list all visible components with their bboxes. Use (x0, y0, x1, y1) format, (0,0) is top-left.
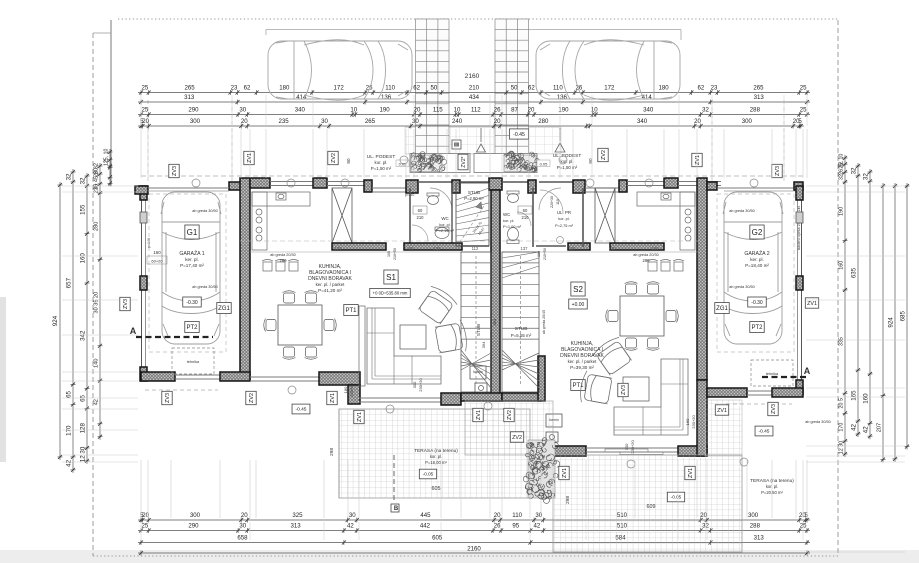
svg-text:110: 110 (385, 84, 395, 91)
S1 south window (250, 376, 324, 378)
svg-text:300: 300 (742, 118, 753, 125)
svg-text:G1: G1 (187, 228, 198, 237)
svg-text:PT2: PT2 (751, 325, 763, 331)
svg-text:WC: WC (503, 212, 510, 217)
svg-text:ZV3: ZV3 (172, 166, 178, 176)
svg-text:136: 136 (381, 94, 392, 101)
svg-text:42: 42 (850, 423, 857, 430)
svg-text:394: 394 (492, 318, 497, 325)
svg-text:ker. pl. / parket: ker. pl. / parket (568, 359, 598, 364)
entry porch right (UL PODEST) (474, 154, 537, 173)
main stair S2 (502, 252, 539, 392)
svg-text:130: 130 (335, 246, 343, 251)
svg-text:ab greda 20/30: ab greda 20/30 (270, 253, 296, 257)
pier g1-3 (140, 276, 147, 290)
svg-text:128: 128 (79, 422, 86, 433)
svg-text:A: A (804, 366, 811, 376)
svg-text:62: 62 (244, 84, 251, 91)
witness lines right (806, 185, 905, 187)
wall (141, 372, 175, 381)
svg-text:190: 190 (838, 207, 844, 216)
svg-text:kor. pl.: kor. pl. (503, 218, 514, 223)
garage1 door (148, 187, 229, 189)
svg-text:P=1,50 m²: P=1,50 m² (371, 166, 392, 171)
pier g2-3 (796, 276, 803, 290)
svg-text:ZV1: ZV1 (688, 468, 694, 478)
label PT2 (185, 322, 199, 333)
svg-text:12 30: 12 30 (79, 446, 86, 462)
WC/stair wall (451, 183, 453, 247)
svg-text:42: 42 (65, 459, 72, 466)
dining S1 (278, 305, 322, 345)
svg-text:25: 25 (141, 522, 148, 529)
svg-text:-0.45: -0.45 (296, 407, 307, 413)
sofa S1 (367, 308, 441, 384)
svg-text:10: 10 (454, 106, 461, 113)
svg-text:P=18,40 m²: P=18,40 m² (745, 263, 769, 268)
svg-text:240: 240 (452, 118, 463, 125)
svg-text:298: 298 (329, 448, 335, 456)
label S1 (384, 270, 398, 284)
beam dashed line (141, 175, 489, 177)
svg-text:313: 313 (291, 522, 302, 529)
svg-text:26 32: 26 32 (838, 161, 844, 175)
kitchen S1 (252, 192, 310, 250)
wall (707, 388, 747, 397)
tv bench S1 (359, 306, 365, 386)
property boundary dashed (118, 18, 838, 20)
svg-text:S2: S2 (573, 285, 583, 294)
svg-text:+0.00: +0.00 (572, 302, 585, 308)
greenery patch (522, 437, 560, 504)
stair core bottom wall right (502, 393, 541, 401)
svg-text:32: 32 (850, 167, 857, 174)
svg-text:265: 265 (753, 84, 764, 91)
pier g2-1 (796, 186, 803, 200)
stair core bottom wall left (461, 393, 502, 401)
svg-text:STUB: STUB (476, 324, 481, 336)
svg-text:kor. pl.: kor. pl. (430, 454, 442, 459)
svg-text:P=39,30 m²: P=39,30 m² (570, 365, 594, 370)
label OD (370, 288, 411, 297)
garage2 door post right (794, 182, 803, 190)
svg-text:442: 442 (420, 522, 431, 529)
bar stools S1 (263, 262, 272, 271)
svg-text:20: 20 (494, 512, 501, 519)
svg-text:PT1: PT1 (572, 383, 584, 389)
outer wall garage1 left (glass brick) (141, 186, 143, 381)
svg-text:130: 130 (609, 246, 617, 251)
svg-text:ab greda 30/50: ab greda 30/50 (192, 285, 218, 289)
S2 terrace door (586, 447, 678, 449)
svg-text:313: 313 (184, 94, 195, 101)
wall S2-garage2 (697, 178, 707, 380)
entry stair left STUB 2.90 (456, 183, 489, 246)
svg-text:230+20: 230+20 (691, 415, 696, 429)
svg-text:110: 110 (553, 84, 563, 91)
svg-text:210+50: 210+50 (393, 248, 397, 260)
svg-text:23: 23 (711, 84, 718, 91)
car (161, 192, 221, 344)
garage2 door (717, 187, 794, 189)
svg-text:62: 62 (698, 84, 705, 91)
witness lines bottom (140, 460, 142, 518)
terrace S2 (553, 455, 742, 552)
svg-text:290: 290 (188, 522, 199, 529)
svg-text:190: 190 (379, 106, 390, 113)
fireplace S2 (546, 414, 562, 427)
bottom dimension chains (138, 519, 810, 521)
svg-text:20 5: 20 5 (838, 398, 844, 409)
party wall (491, 190, 500, 401)
svg-text:P=5,55 m²: P=5,55 m² (511, 333, 532, 338)
svg-text:172: 172 (604, 84, 615, 91)
svg-text:kor. pl.: kor. pl. (558, 216, 569, 221)
pier g2-4 (796, 380, 803, 394)
S2 south wall east (678, 446, 707, 456)
svg-text:30: 30 (239, 106, 246, 113)
svg-text:ker. pl.: ker. pl. (750, 257, 764, 262)
S2 east wall lower (697, 380, 707, 456)
plot line (110, 20, 112, 186)
window ZV1 (270, 181, 313, 183)
svg-text:112: 112 (472, 246, 479, 251)
svg-text:87: 87 (511, 106, 518, 113)
svg-text:340: 340 (295, 106, 306, 113)
svg-text:2160: 2160 (465, 73, 480, 80)
section B (393, 455, 395, 503)
witness lines left (62, 185, 138, 187)
svg-text:-0.05: -0.05 (423, 472, 434, 477)
S1 terrace door (359, 397, 441, 399)
WC corner pier (406, 180, 418, 193)
svg-text:136: 136 (557, 94, 568, 101)
svg-text:265: 265 (184, 84, 195, 91)
svg-text:P=2,75 m²: P=2,75 m² (555, 223, 574, 228)
svg-text:ZV1: ZV1 (562, 468, 568, 478)
svg-text:434: 434 (469, 94, 480, 101)
wall seg S1 (332, 243, 386, 250)
side path grid (705, 400, 742, 456)
svg-text:23: 23 (231, 84, 238, 91)
svg-text:STUB: STUB (515, 326, 528, 332)
svg-text:25: 25 (141, 106, 148, 113)
svg-text:210: 210 (522, 215, 530, 220)
svg-text:394: 394 (481, 341, 486, 348)
svg-text:ZV1: ZV1 (717, 408, 727, 414)
svg-text:20: 20 (694, 118, 701, 125)
svg-text:ZV2: ZV2 (331, 153, 337, 163)
wardrobe S1 (332, 188, 352, 243)
svg-text:924: 924 (52, 315, 59, 326)
svg-text:65: 65 (65, 390, 72, 397)
svg-text:-0.30: -0.30 (186, 300, 198, 306)
svg-text:ZV3: ZV3 (123, 299, 129, 309)
svg-text:20: 20 (528, 106, 535, 113)
svg-text:26: 26 (494, 522, 501, 529)
svg-text:25: 25 (800, 106, 807, 113)
svg-text:230+20: 230+20 (418, 378, 423, 392)
S1 top wall pier (313, 178, 327, 188)
svg-text:-0.05: -0.05 (671, 495, 682, 500)
svg-text:235: 235 (279, 118, 290, 125)
svg-text:UL. PR: UL. PR (557, 210, 571, 215)
coffee table S2 (623, 377, 649, 401)
svg-text:-0.45: -0.45 (513, 132, 525, 138)
svg-text:298: 298 (565, 496, 571, 504)
S2 sliding door rails (605, 449, 648, 452)
svg-text:160: 160 (685, 418, 690, 425)
pier g1-1 (140, 186, 147, 200)
svg-text:25: 25 (800, 522, 807, 529)
UL.PR room right (540, 190, 563, 213)
wall seg S2 (610, 243, 664, 250)
svg-text:340: 340 (643, 106, 654, 113)
level G1 (183, 297, 202, 307)
svg-text:313: 313 (754, 94, 765, 101)
svg-text:280: 280 (643, 258, 651, 263)
walkway strip left (416, 19, 529, 154)
svg-text:115: 115 (433, 106, 443, 113)
svg-text:20: 20 (241, 512, 248, 519)
driveway dashes (147, 100, 149, 184)
svg-text:B: B (394, 506, 399, 512)
svg-text:ab greda 30/50: ab greda 30/50 (192, 209, 218, 213)
svg-text:ab greda 30/50: ab greda 30/50 (729, 285, 755, 289)
window ZV2 (327, 181, 364, 183)
svg-text:160: 160 (153, 250, 161, 255)
car (723, 192, 783, 344)
svg-text:ab greda 30/50: ab greda 30/50 (729, 209, 755, 213)
svg-text:635: 635 (850, 267, 857, 278)
svg-text:ZV3: ZV3 (165, 393, 171, 403)
svg-text:PT1: PT1 (345, 308, 357, 314)
svg-text:2160: 2160 (467, 545, 481, 552)
svg-text:165: 165 (850, 390, 857, 401)
svg-text:P=18,00 m²: P=18,00 m² (425, 460, 447, 465)
svg-text:445: 445 (420, 512, 431, 519)
outer wall garage2 right (glass brick) (801, 186, 803, 397)
wall (220, 372, 250, 381)
terrace S1 (339, 409, 530, 498)
svg-text:ZV3: ZV3 (771, 404, 777, 414)
party wall top block (489, 178, 502, 190)
S1 south pier 2 (441, 393, 461, 405)
car (268, 40, 412, 101)
svg-text:WC: WC (441, 216, 448, 221)
svg-text:220+30: 220+30 (550, 196, 554, 208)
kitchen S2 (637, 192, 695, 250)
svg-text:288: 288 (750, 522, 761, 529)
svg-text:62: 62 (528, 84, 535, 91)
armchair S1b (434, 319, 468, 356)
pier g2-2 (796, 212, 803, 223)
label S2 (571, 282, 585, 296)
svg-text:kor. pl.: kor. pl. (375, 160, 388, 165)
svg-text:S1: S1 (386, 273, 396, 282)
svg-text:ZV2: ZV2 (507, 410, 513, 420)
svg-text:tehnika: tehnika (187, 360, 200, 364)
svg-text:300: 300 (190, 512, 201, 519)
svg-text:ZV1: ZV1 (357, 412, 363, 422)
sofa S2 (614, 359, 688, 435)
svg-text:P=20,50 m²: P=20,50 m² (761, 490, 783, 495)
svg-text:130: 130 (569, 246, 577, 251)
svg-text:5: 5 (798, 118, 802, 125)
paved entry grid (405, 127, 561, 154)
recessed wall (372, 187, 406, 189)
svg-text:125: 125 (434, 246, 442, 251)
svg-text:P=41,20 m²: P=41,20 m² (318, 288, 342, 293)
svg-text:62: 62 (413, 84, 420, 91)
svg-text:0.05: 0.05 (540, 162, 549, 167)
pier g1-2 (140, 212, 147, 223)
svg-text:80: 80 (346, 158, 351, 164)
svg-text:685: 685 (899, 311, 906, 322)
svg-text:ZV2*: ZV2* (461, 156, 467, 167)
svg-text:180: 180 (659, 84, 670, 91)
svg-text:25: 25 (800, 84, 807, 91)
svg-text:180: 180 (279, 84, 290, 91)
S2 top wall pier (664, 178, 678, 188)
WC block top wall (418, 181, 452, 183)
svg-text:20: 20 (142, 118, 149, 125)
svg-text:G2: G2 (752, 228, 763, 237)
svg-text:210+50: 210+50 (543, 248, 547, 260)
svg-text:P=17,40 m²: P=17,40 m² (180, 263, 204, 268)
svg-text:20: 20 (414, 106, 421, 113)
svg-text:ZV3: ZV3 (775, 166, 781, 176)
armchair S2a (591, 335, 634, 377)
svg-text:ab greda 20/45: ab greda 20/45 (542, 310, 546, 334)
svg-text:ZV3: ZV3 (621, 385, 627, 395)
svg-text:+0 0D=535.80 mm: +0 0D=535.80 mm (373, 291, 408, 296)
svg-text:300: 300 (190, 118, 201, 125)
svg-text:ab greda 20/30: ab greda 20/30 (633, 253, 659, 257)
garage2 door post left (707, 182, 717, 190)
WC right fixtures (507, 191, 531, 244)
svg-text:658: 658 (237, 535, 248, 542)
svg-text:140: 140 (93, 359, 99, 368)
svg-text:605: 605 (432, 486, 441, 492)
svg-text:ZV2: ZV2 (249, 393, 255, 403)
svg-text:ZV2: ZV2 (601, 150, 607, 160)
svg-text:ZV1: ZV1 (807, 301, 817, 307)
svg-text:300: 300 (412, 381, 417, 388)
svg-text:924: 924 (887, 317, 894, 328)
svg-text:25: 25 (141, 84, 148, 91)
svg-text:172: 172 (334, 84, 345, 91)
svg-text:60: 60 (418, 208, 423, 213)
garage1 door post left (135, 186, 148, 194)
S1 south pier (319, 372, 360, 385)
level -0.45 (509, 129, 528, 139)
svg-text:GARAŽA 2: GARAŽA 2 (744, 249, 769, 257)
svg-text:ker. pl.: ker. pl. (185, 257, 199, 262)
svg-text:230+20: 230+20 (349, 383, 354, 397)
svg-text:280: 280 (538, 118, 549, 125)
main stair S1 (461, 252, 491, 392)
level G2 (748, 297, 767, 307)
svg-text:P=1,00 m²: P=1,00 m² (503, 224, 522, 229)
svg-text:335: 335 (838, 337, 844, 346)
svg-text:ZG1: ZG1 (218, 306, 230, 312)
svg-text:60: 60 (523, 208, 528, 213)
svg-text:160: 160 (862, 393, 869, 404)
svg-text:20: 20 (241, 118, 248, 125)
svg-text:160: 160 (79, 253, 86, 264)
svg-text:ZG1: ZG1 (716, 306, 728, 312)
svg-text:230+20: 230+20 (630, 440, 635, 454)
svg-text:325: 325 (292, 512, 303, 519)
parking space dashed g2 (717, 194, 794, 352)
bar stools S2 (648, 262, 657, 271)
svg-text:288: 288 (750, 106, 761, 113)
pier WC/ULPR right (528, 180, 536, 193)
label ZV3 top-left (169, 164, 179, 177)
svg-text:32: 32 (65, 173, 72, 180)
mirrored right (502, 181, 531, 183)
svg-text:32: 32 (702, 106, 709, 113)
svg-text:26: 26 (494, 106, 501, 113)
svg-text:110: 110 (512, 512, 522, 519)
svg-text:STUB: STUB (468, 190, 480, 195)
S1 top wall jog (364, 180, 372, 192)
car (536, 40, 680, 101)
svg-text:112: 112 (471, 106, 481, 113)
svg-text:32: 32 (79, 177, 86, 184)
svg-text:A: A (130, 326, 137, 336)
svg-text:30: 30 (321, 118, 328, 125)
parking space dashed (149, 194, 226, 352)
svg-text:42: 42 (534, 522, 541, 529)
armchair S2b (578, 370, 612, 407)
entry door arcs (430, 188, 452, 210)
svg-text:265: 265 (365, 118, 376, 125)
svg-text:342: 342 (79, 330, 86, 341)
svg-text:GARAŽA 1: GARAŽA 1 (179, 249, 204, 257)
S2 top wall jog (619, 180, 627, 192)
dining S2 (620, 296, 664, 336)
svg-text:50: 50 (511, 84, 518, 91)
svg-text:340: 340 (637, 118, 648, 125)
svg-text:290: 290 (188, 106, 199, 113)
svg-text:657: 657 (65, 277, 72, 288)
tehnika boxes (172, 348, 214, 374)
svg-text:ZV1: ZV1 (330, 393, 336, 403)
svg-text:p=110: p=110 (405, 193, 414, 197)
svg-text:ZV1: ZV1 (476, 410, 482, 420)
svg-text:-0.45: -0.45 (759, 429, 770, 435)
svg-text:280: 280 (93, 222, 99, 231)
svg-text:42: 42 (347, 522, 354, 529)
svg-text:170: 170 (65, 425, 72, 436)
svg-text:20: 20 (494, 118, 501, 125)
svg-text:137: 137 (521, 246, 529, 251)
fireplace S1 (470, 366, 486, 379)
svg-text:210: 210 (469, 84, 480, 91)
wardrobe S2 (595, 188, 615, 243)
garage1 door post right (229, 182, 241, 190)
witness lines top (140, 129, 142, 178)
svg-text:155: 155 (79, 204, 86, 215)
entry porch left (UL PODEST) (410, 154, 470, 173)
svg-text:tehnika: tehnika (766, 372, 779, 376)
svg-text:110: 110 (556, 199, 560, 205)
label G2 (750, 225, 764, 239)
ULPR corner pier right (573, 180, 585, 193)
svg-text:20: 20 (142, 512, 149, 519)
